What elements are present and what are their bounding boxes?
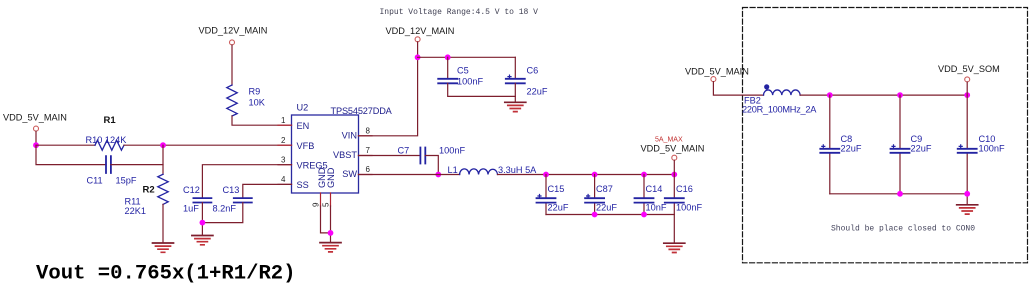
node bottom rail C10 [964, 191, 970, 197]
svg-text:5: 5 [322, 202, 331, 207]
svg-text:TPS54527DDA: TPS54527DDA [331, 106, 393, 116]
svg-text:C8: C8 [841, 134, 853, 144]
capacitor C9 polarity mark [892, 145, 895, 148]
svg-text:3.3uH 5A: 3.3uH 5A [498, 165, 537, 175]
svg-text:Should be place closed to CON0: Should be place closed to CON0 [831, 224, 975, 233]
svg-text:C13: C13 [223, 185, 240, 195]
wire C10 branch [966, 95, 968, 194]
wire GND pin 9 down [321, 206, 331, 233]
capacitor C87 plates [585, 198, 604, 202]
node C87 junction [592, 172, 598, 178]
svg-text:VIN: VIN [342, 130, 357, 140]
svg-text:C7: C7 [398, 146, 410, 156]
port VDD_5V_MAIN (left) circle [34, 126, 39, 131]
capacitor C9 plates [891, 149, 910, 153]
wire output port stem [673, 160, 675, 174]
svg-text:22uF: 22uF [841, 144, 862, 154]
wire SW output rail [498, 174, 675, 176]
svg-text:220R_100MHz_2A: 220R_100MHz_2A [742, 105, 817, 115]
svg-text:3: 3 [281, 155, 286, 164]
resistor R9 zigzag [227, 85, 237, 116]
svg-text:R1: R1 [104, 115, 117, 126]
svg-text:C11: C11 [87, 176, 103, 186]
svg-text:U2: U2 [297, 103, 309, 113]
IC U2 TPS54527DDA body [292, 115, 359, 193]
svg-text:R2: R2 [143, 185, 155, 196]
wire port to R9 [231, 45, 233, 85]
wire VDD_5V_SOM stem [966, 82, 968, 95]
pin stub 4 [278, 183, 292, 185]
svg-text:VDD_5V_SOM: VDD_5V_SOM [938, 64, 1000, 74]
svg-text:C5: C5 [457, 66, 469, 76]
pin stub 6 [359, 174, 373, 176]
svg-text:L1: L1 [448, 165, 458, 175]
svg-text:VDD_5V_MAIN: VDD_5V_MAIN [641, 143, 705, 153]
node C10 junction [964, 92, 970, 98]
pin stub 8 [359, 135, 373, 137]
port VDD_5V_MAIN (output) circle [672, 155, 677, 160]
svg-text:C6: C6 [527, 66, 539, 76]
wire ferrite bottom rail [830, 194, 967, 205]
wire R9 to pin 1 EN [232, 116, 292, 125]
wire port VDD_5V_MAIN stem [35, 131, 37, 145]
wire top rail C5 C6 [418, 56, 516, 58]
node VIN junction top [415, 54, 421, 60]
ground under U2 [320, 243, 341, 252]
pin stub 7 [359, 155, 373, 157]
svg-text:22uF: 22uF [527, 87, 548, 97]
inductor FB2 phase dot [764, 84, 769, 89]
inductor FB2 [764, 90, 801, 95]
wire GND pin 5 down [330, 206, 332, 243]
capacitor C5 plates [438, 79, 457, 84]
svg-text:22K1: 22K1 [125, 206, 146, 216]
svg-text:100nF: 100nF [439, 146, 465, 156]
node VFB junction at port [33, 142, 39, 148]
svg-text:4: 4 [281, 175, 286, 184]
wire C5 bottom rail [448, 83, 516, 96]
wire C12 bottom [201, 203, 203, 236]
ground under C12 [192, 236, 213, 245]
svg-text:7: 7 [366, 146, 371, 155]
capacitor C15 plates [537, 198, 556, 202]
svg-text:VFB: VFB [297, 141, 315, 151]
svg-text:C14: C14 [646, 184, 663, 194]
svg-text:R11: R11 [125, 197, 141, 207]
capacitor C16 plates [665, 198, 684, 202]
capacitor C10 polarity mark [959, 145, 962, 148]
ground in placement box [957, 205, 978, 214]
ground under output rail [664, 243, 685, 252]
svg-text:8: 8 [366, 126, 371, 135]
dashed placement box [743, 8, 1028, 263]
wire down from port to C11 level [36, 145, 106, 164]
svg-text:C9: C9 [911, 134, 923, 144]
capacitor C14 plates [635, 198, 654, 202]
capacitor C6 plates [506, 79, 525, 84]
inductor L1 [460, 169, 498, 175]
node C14 junction [641, 172, 647, 178]
node C9 junction [897, 92, 903, 98]
capacitor C13 plates [234, 198, 252, 202]
svg-text:Vout =0.765x(1+R1/R2): Vout =0.765x(1+R1/R2) [36, 262, 296, 285]
svg-text:22uF: 22uF [596, 203, 617, 213]
pin stub 2 [278, 144, 292, 146]
pin stub 5 [330, 193, 332, 206]
ground under C6 [505, 102, 526, 111]
capacitor C12 plates [193, 198, 211, 202]
svg-text:C16: C16 [676, 184, 693, 194]
pin stub 3 [278, 164, 292, 166]
capacitor C87 polarity mark [587, 195, 590, 198]
wire C11 right to R2 column [111, 164, 163, 166]
capacitor C8 plates [820, 149, 839, 153]
svg-text:2: 2 [281, 136, 286, 145]
capacitor C11 plates [106, 156, 111, 173]
wire C87 branch [594, 175, 596, 215]
svg-text:VDD_5V_MAIN: VDD_5V_MAIN [685, 66, 749, 76]
svg-text:R9: R9 [249, 87, 261, 97]
svg-text:9: 9 [312, 202, 321, 207]
resistor R2/R11 zigzag [158, 174, 168, 204]
svg-text:22uF: 22uF [911, 144, 932, 154]
svg-text:100nF: 100nF [979, 144, 1005, 154]
wire C16 branch [673, 175, 675, 215]
node bottom rail C9 [897, 191, 903, 197]
capacitor C15 polarity mark [538, 195, 541, 198]
svg-text:VDD_5V_MAIN: VDD_5V_MAIN [3, 112, 67, 122]
wire C15 branch [545, 175, 547, 215]
node C7 SW junction [435, 172, 441, 178]
node C16 junction [671, 172, 677, 178]
svg-text:6: 6 [366, 165, 371, 174]
node bottom rail C87 [592, 212, 598, 218]
node GND pins junction [328, 230, 334, 236]
wire ferrite output rail [800, 94, 967, 96]
wire R2 to ground [162, 204, 164, 242]
capacitor C8 polarity mark [822, 145, 825, 148]
svg-text:GND: GND [326, 167, 336, 188]
port VDD_5V_SOM circle [965, 77, 970, 82]
node C5 junction [445, 54, 451, 60]
node C8 junction [827, 92, 833, 98]
capacitor C6 polarity mark [508, 75, 511, 78]
node C15 junction [543, 172, 549, 178]
node bottom rail C14 [641, 212, 647, 218]
wire SW net to L1 [359, 174, 460, 176]
svg-text:1uF: 1uF [183, 204, 199, 214]
svg-text:10K: 10K [249, 98, 266, 108]
capacitor C10 plates [958, 149, 977, 153]
svg-text:C10: C10 [979, 134, 996, 144]
wire VREG5 net to C12 [202, 165, 291, 198]
svg-text:22uF: 22uF [548, 203, 569, 213]
wire C6 branch top [514, 57, 516, 78]
wire C7 right down to SW [425, 156, 438, 175]
svg-text:VBST: VBST [333, 150, 357, 160]
wire VFB net to pin 2 [124, 144, 292, 146]
wire VFB down to R2 [162, 145, 164, 174]
svg-text:R10 124K: R10 124K [86, 135, 128, 145]
wire C13 bottom rail [202, 203, 242, 223]
wire SS net to C13 [243, 184, 292, 198]
wire ferrite port stem [713, 82, 763, 95]
port VDD_12V_MAIN (right) circle [415, 37, 420, 42]
pin stub 9 [320, 193, 322, 206]
wire C6 bottom [514, 83, 516, 102]
svg-text:VDD_12V_MAIN: VDD_12V_MAIN [199, 25, 268, 35]
wire C14 branch [643, 175, 645, 215]
node C12 C13 junction [200, 220, 206, 226]
pin stub 1 [278, 124, 292, 126]
svg-text:10nF: 10nF [646, 203, 667, 213]
resistor R10 zigzag [95, 140, 124, 150]
svg-text:SW: SW [342, 169, 357, 179]
wire VBST net to C7 [359, 155, 421, 157]
svg-text:C12: C12 [183, 185, 200, 195]
svg-text:SS: SS [297, 180, 309, 190]
ground under R11 [153, 243, 174, 252]
svg-text:EN: EN [297, 121, 310, 131]
svg-text:100nF: 100nF [457, 77, 483, 87]
svg-text:VDD_12V_MAIN: VDD_12V_MAIN [386, 26, 455, 36]
svg-text:1: 1 [281, 116, 286, 125]
wire VFB net left segment [36, 144, 95, 146]
svg-text:C87: C87 [596, 184, 613, 194]
wire C9 branch [899, 95, 901, 194]
svg-text:C15: C15 [548, 184, 565, 194]
svg-text:15pF: 15pF [116, 176, 137, 186]
svg-text:100nF: 100nF [676, 203, 702, 213]
node VFB junction at R2 [160, 142, 166, 148]
capacitor C7 plates [420, 148, 425, 164]
wire C5 branch top [447, 57, 449, 78]
port VDD_5V_MAIN (ferrite) circle [711, 77, 716, 82]
wire C8 branch [829, 95, 831, 194]
svg-text:Input Voltage Range:4.5 V to 1: Input Voltage Range:4.5 V to 18 V [380, 8, 539, 17]
svg-text:8.2nF: 8.2nF [213, 204, 237, 214]
wire output bottom rail [546, 215, 674, 244]
port VDD_12V_MAIN circle [230, 40, 235, 45]
wire VIN vertical [359, 42, 418, 136]
